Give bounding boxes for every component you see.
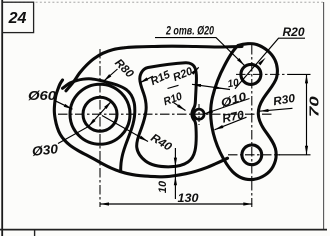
body outline right bean section <box>211 44 278 180</box>
centerline vertical right holes <box>251 45 253 207</box>
leader R70 <box>215 117 247 130</box>
dimension 70 <box>306 74 308 154</box>
leader R80 <box>104 69 118 81</box>
svg-text:R80: R80 <box>112 57 136 81</box>
bottom hole D20 <box>242 145 262 165</box>
leader R20 top lobe <box>235 38 305 89</box>
sheet frame right border <box>323 2 325 230</box>
hub bore D30 <box>83 97 117 131</box>
svg-text:2 отв. Ø20: 2 отв. Ø20 <box>165 23 214 37</box>
leader 2 holes D20 <box>155 38 245 66</box>
svg-text:R20: R20 <box>171 65 195 84</box>
body outline top contour R80 <box>66 46 242 91</box>
dimension 10 bottom <box>174 148 176 199</box>
dimension 130 <box>100 203 252 205</box>
leader R40 <box>102 116 148 142</box>
body outline left and bottom edge <box>54 80 227 177</box>
centerline horizontal main axis <box>58 113 272 115</box>
task number box <box>2 2 33 32</box>
leader R15 <box>140 76 154 83</box>
dimension 10 wall <box>192 84 230 89</box>
dimension 70 extension lines <box>288 73 311 75</box>
svg-text:130: 130 <box>178 191 199 205</box>
leader R10 <box>174 103 186 111</box>
top hole D20 <box>241 64 261 84</box>
next cell tick <box>34 230 36 236</box>
sheet frame left border <box>1 0 3 236</box>
svg-text:Ø60: Ø60 <box>28 89 56 103</box>
hub boss egg contour upper <box>63 79 135 171</box>
svg-text:Ø10: Ø10 <box>220 91 249 110</box>
svg-text:R10: R10 <box>162 90 185 108</box>
svg-text:R20: R20 <box>283 25 305 39</box>
sheet frame bottom rule <box>0 229 327 231</box>
hub circle D60 <box>70 84 130 144</box>
leader D30 <box>58 101 111 143</box>
svg-text:10: 10 <box>157 180 169 193</box>
leader D60 <box>54 100 73 109</box>
svg-text:R15: R15 <box>149 68 173 88</box>
svg-text:Ø30: Ø30 <box>31 141 59 159</box>
svg-text:R40: R40 <box>148 132 174 154</box>
leader R20 cutout <box>193 67 199 73</box>
svg-text:24: 24 <box>8 10 27 27</box>
sheet frame top border <box>2 1 323 3</box>
svg-text:70: 70 <box>308 96 322 117</box>
centerline vertical small hole <box>198 104 200 125</box>
svg-text:R30: R30 <box>272 93 296 109</box>
centerline horizontal bottom hole <box>228 154 280 156</box>
leader R30 <box>260 108 293 111</box>
svg-text:R70: R70 <box>221 109 246 125</box>
svg-text:10: 10 <box>227 77 240 91</box>
centerline horizontal top hole <box>236 73 288 75</box>
small hole D10 <box>194 109 204 119</box>
centerline vertical left hub <box>99 49 101 207</box>
leader D10 <box>204 99 250 115</box>
inner cutout contour <box>137 63 197 167</box>
